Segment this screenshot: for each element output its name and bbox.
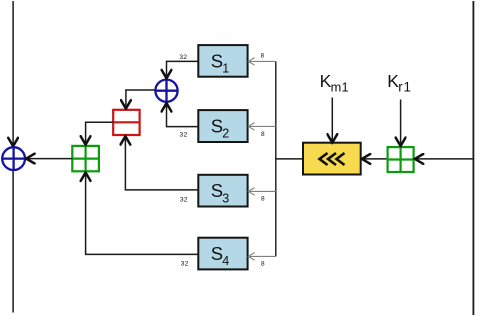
sub box B1 (red, two rows) <box>113 110 139 135</box>
wire stub into S4 <box>248 253 276 261</box>
svg-text:3: 3 <box>222 191 229 205</box>
wire right vertical line <box>472 1 474 315</box>
svg-text:32: 32 <box>180 131 188 138</box>
wire rotate box to collector <box>275 158 303 160</box>
wire left input vertical line (top) <box>12 1 14 146</box>
svg-text:2: 2 <box>222 127 229 141</box>
svg-text:8: 8 <box>261 261 265 268</box>
svg-text:32: 32 <box>181 260 189 267</box>
wire stub into S3 <box>248 188 276 196</box>
wire right line to add A2 <box>415 158 474 160</box>
svg-text:r1: r1 <box>398 80 412 95</box>
wire collector vertical <box>275 61 277 256</box>
wire xor X2 output to sub B1 top <box>126 90 155 109</box>
svg-text:8: 8 <box>260 53 264 60</box>
svg-text:S: S <box>211 243 223 264</box>
wire add A1 to xor X1 <box>26 158 72 160</box>
wire S1 output to xor X2 top <box>167 61 199 78</box>
wire left output vertical line (bottom) <box>12 171 14 313</box>
wire S4 output to add A1 bottom <box>86 173 199 255</box>
svg-text:m1: m1 <box>331 80 349 95</box>
svg-text:S: S <box>211 50 223 71</box>
svg-text:32: 32 <box>179 54 187 61</box>
svg-text:1: 1 <box>222 62 229 76</box>
wire S3 output to sub B1 bottom <box>125 136 198 190</box>
svg-text:8: 8 <box>261 131 265 138</box>
svg-text:32: 32 <box>180 196 188 203</box>
add box A1 (green grid, left) <box>72 146 99 171</box>
wire Kr1 arrow into add A2 <box>400 100 402 147</box>
s-box S4 <box>198 238 247 270</box>
svg-text:8: 8 <box>261 196 265 203</box>
wire add A2 to rotate box <box>362 158 388 160</box>
s-box S3 <box>198 175 247 207</box>
rotate box R1 (yellow <<<) <box>303 143 361 175</box>
wire stub into S2 <box>248 123 276 131</box>
svg-text:4: 4 <box>222 254 229 268</box>
s-box S2 <box>198 110 247 142</box>
svg-text:S: S <box>211 180 223 201</box>
label Kr1 <box>387 71 412 94</box>
wire Km1 arrow into rotate box <box>331 98 333 143</box>
wire S2 output to xor X2 bottom <box>167 103 199 127</box>
wire sub B1 output to add A1 top <box>86 122 114 144</box>
svg-text:S: S <box>211 115 223 136</box>
xor circle X1 (left output XOR) <box>2 147 25 170</box>
add box A2 (green grid, right) <box>388 147 414 172</box>
xor circle X2 (upper) <box>155 80 177 102</box>
label Km1 <box>320 71 349 94</box>
s-box S1 <box>198 45 247 77</box>
wire stub into S1 <box>248 58 276 66</box>
